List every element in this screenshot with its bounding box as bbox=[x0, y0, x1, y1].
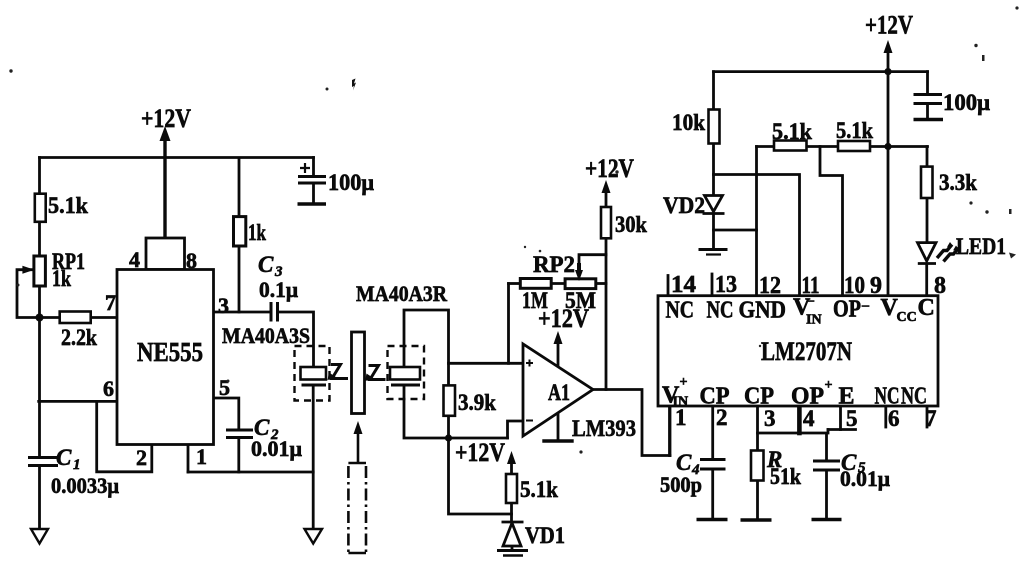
svg-text:6: 6 bbox=[888, 406, 900, 431]
svg-text:5.1k: 5.1k bbox=[520, 477, 558, 502]
svg-text:0.01μ: 0.01μ bbox=[840, 466, 891, 491]
svg-text:5M: 5M bbox=[565, 288, 596, 313]
svg-text:MA40A3S: MA40A3S bbox=[222, 323, 310, 348]
svg-text:IN: IN bbox=[673, 395, 689, 410]
svg-text:1: 1 bbox=[73, 457, 81, 473]
svg-text:2.2k: 2.2k bbox=[61, 325, 97, 350]
svg-text:NC: NC bbox=[666, 298, 695, 324]
svg-text:LED1: LED1 bbox=[956, 234, 1006, 259]
svg-text:GND: GND bbox=[739, 298, 787, 324]
svg-text:8: 8 bbox=[186, 248, 197, 273]
svg-text:LM2707N: LM2707N bbox=[761, 337, 852, 366]
svg-text:IN: IN bbox=[806, 313, 822, 328]
svg-text:7: 7 bbox=[925, 406, 937, 431]
svg-text:5.1k: 5.1k bbox=[836, 118, 873, 143]
svg-text:2: 2 bbox=[136, 445, 147, 470]
svg-text:OP: OP bbox=[791, 384, 824, 410]
svg-text:0.0033μ: 0.0033μ bbox=[51, 473, 119, 498]
svg-text:6: 6 bbox=[103, 376, 114, 401]
svg-text:3: 3 bbox=[218, 293, 229, 318]
svg-text:3.9k: 3.9k bbox=[458, 390, 496, 415]
svg-text:OP: OP bbox=[833, 297, 861, 323]
svg-text:10k: 10k bbox=[672, 110, 705, 135]
svg-text:5.1k: 5.1k bbox=[772, 119, 812, 144]
svg-text:E: E bbox=[839, 384, 855, 410]
svg-text:LM393: LM393 bbox=[572, 416, 636, 441]
svg-text:+12V: +12V bbox=[865, 11, 913, 40]
svg-text:5: 5 bbox=[219, 375, 230, 400]
svg-text:0.01μ: 0.01μ bbox=[251, 436, 303, 461]
svg-text:NC: NC bbox=[707, 298, 734, 324]
svg-text:C: C bbox=[56, 445, 72, 470]
svg-text:7: 7 bbox=[105, 290, 116, 315]
svg-text:3: 3 bbox=[764, 406, 776, 431]
svg-text:10: 10 bbox=[844, 273, 865, 299]
svg-text:A1: A1 bbox=[548, 380, 570, 405]
svg-text:100μ: 100μ bbox=[328, 170, 374, 195]
svg-text:C: C bbox=[258, 252, 274, 277]
svg-text:CC: CC bbox=[897, 310, 917, 325]
svg-text:–: – bbox=[861, 298, 870, 313]
svg-text:500p: 500p bbox=[660, 472, 702, 497]
svg-text:0.1μ: 0.1μ bbox=[259, 277, 299, 302]
svg-text:+: + bbox=[825, 378, 833, 393]
svg-text:NC: NC bbox=[875, 384, 900, 410]
svg-text:30k: 30k bbox=[615, 212, 647, 237]
svg-text:1: 1 bbox=[196, 444, 207, 469]
svg-text:8: 8 bbox=[934, 273, 946, 299]
svg-text:4: 4 bbox=[803, 406, 815, 431]
svg-text:100μ: 100μ bbox=[943, 90, 990, 115]
svg-text:CP: CP bbox=[700, 384, 730, 410]
svg-text:1M: 1M bbox=[522, 288, 548, 313]
svg-text:C: C bbox=[918, 295, 935, 321]
svg-text:+12V: +12V bbox=[141, 104, 191, 133]
svg-text:5: 5 bbox=[846, 406, 858, 431]
svg-text:+12V: +12V bbox=[455, 438, 505, 467]
svg-text:12: 12 bbox=[759, 273, 781, 299]
svg-text:NE555: NE555 bbox=[137, 337, 203, 367]
svg-text:NC: NC bbox=[901, 384, 927, 410]
svg-text:+12V: +12V bbox=[585, 154, 634, 183]
svg-text:RP2: RP2 bbox=[533, 252, 575, 277]
svg-text:1k: 1k bbox=[52, 266, 71, 291]
svg-text:VD2: VD2 bbox=[663, 193, 705, 218]
svg-text:13: 13 bbox=[715, 272, 737, 298]
svg-text:CP: CP bbox=[744, 384, 774, 410]
svg-text:VD1: VD1 bbox=[525, 523, 565, 548]
svg-text:R: R bbox=[766, 447, 782, 472]
svg-text:MA40A3R: MA40A3R bbox=[356, 281, 448, 306]
svg-text:–: – bbox=[806, 293, 815, 308]
svg-text:14: 14 bbox=[671, 272, 696, 298]
svg-text:+: + bbox=[680, 375, 688, 390]
svg-text:4: 4 bbox=[129, 247, 140, 272]
svg-text:5.1k: 5.1k bbox=[48, 193, 88, 218]
svg-text:1k: 1k bbox=[248, 220, 266, 245]
svg-text:3.3k: 3.3k bbox=[939, 170, 977, 195]
